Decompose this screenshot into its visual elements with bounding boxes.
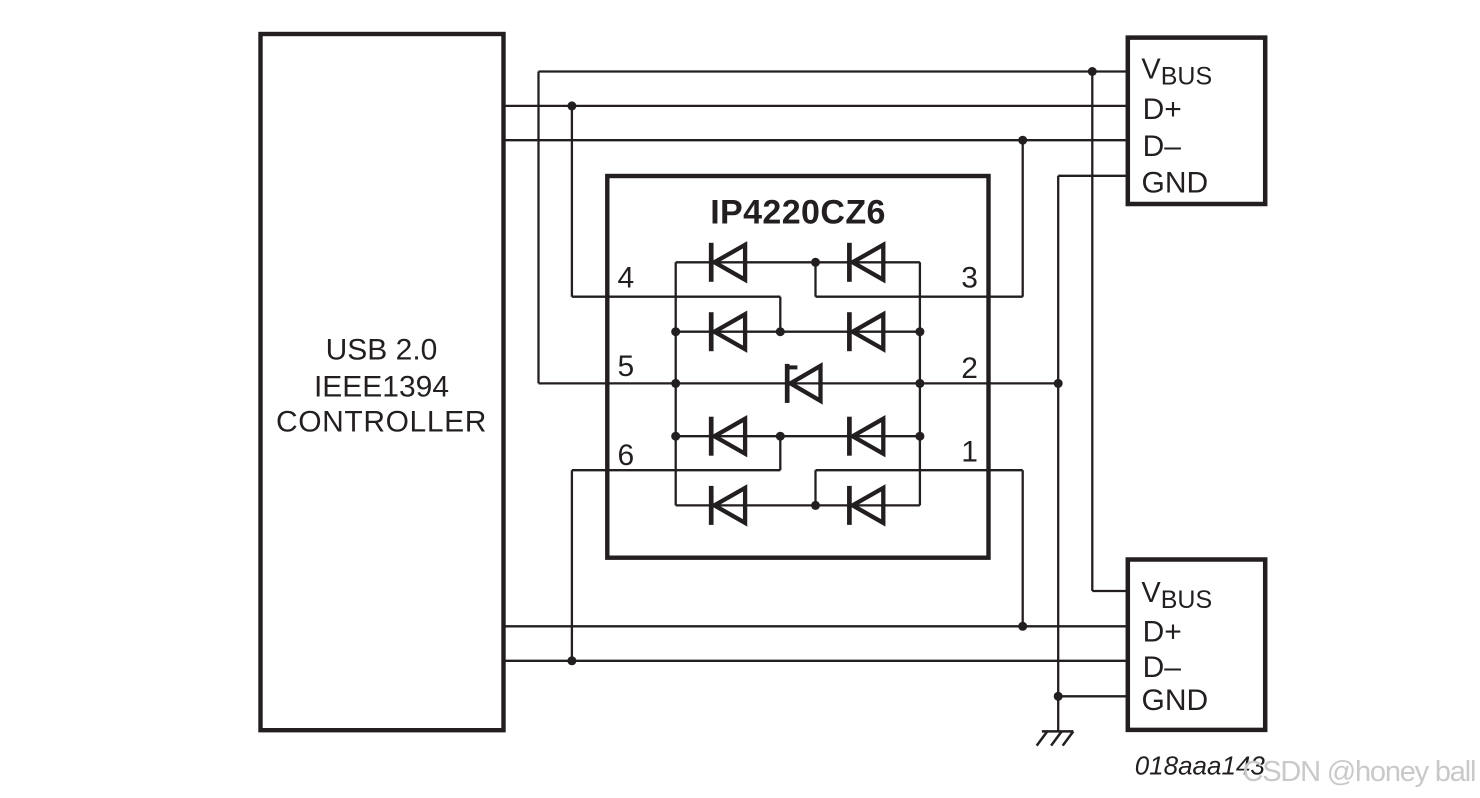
wire row D [676, 435, 920, 437]
svg-text:4: 4 [618, 261, 635, 294]
junction row C left rail [671, 379, 680, 388]
diode D6 row D right [849, 417, 883, 456]
wire pin3 rise to row A [814, 262, 816, 296]
svg-text:D+: D+ [1143, 93, 1182, 126]
connector box top (upstream USB port) [1128, 38, 1265, 204]
svg-text:5: 5 [618, 350, 635, 383]
controller box [261, 34, 504, 730]
wire VBUS bottom horizontal [1092, 590, 1128, 592]
svg-text:D–: D– [1143, 651, 1182, 684]
wire GND vertical [1057, 176, 1059, 732]
junction GND bottom [1054, 692, 1063, 701]
wire GND bottom [1058, 695, 1128, 697]
wire D- bottom [504, 660, 1128, 662]
junction row D right rail [915, 432, 924, 441]
svg-text:GND: GND [1142, 166, 1209, 199]
junction D+ top / pin4 [567, 101, 576, 110]
wire row A [676, 261, 920, 263]
wire left rail [675, 262, 677, 505]
svg-text:6: 6 [618, 439, 635, 472]
junction row C right rail [915, 379, 924, 388]
svg-text:D+: D+ [1143, 616, 1182, 649]
wire VBUS top horizontal [539, 70, 1128, 72]
connector box bottom (downstream USB port) [1128, 560, 1265, 730]
wire GND top [1058, 175, 1128, 177]
diode D3 row B left [711, 312, 745, 351]
wire D- top [504, 139, 1128, 141]
IC box IP4220CZ6 [607, 176, 988, 558]
svg-text:CSDN @honey ball: CSDN @honey ball [1243, 756, 1476, 788]
wire pin6 vertical [571, 470, 573, 661]
junction row B mid [776, 327, 785, 336]
wire pin1 drop to row E [814, 470, 816, 505]
diode D2 row A right [849, 243, 883, 282]
junction D+ bottom / pin1 [1018, 622, 1027, 631]
wire row E [676, 504, 920, 506]
wire pin4 horizontal [572, 296, 780, 298]
junction D- top / pin3 [1018, 136, 1027, 145]
junction pin2 / GND [1054, 379, 1063, 388]
svg-text:USB 2.0: USB 2.0 [326, 334, 438, 367]
diode D1 row A left [711, 243, 745, 282]
svg-text:IP4220CZ6: IP4220CZ6 [710, 193, 886, 231]
wire right rail [919, 262, 921, 505]
wire pin1 outside vertical [1022, 470, 1024, 626]
wire row B [676, 331, 920, 333]
wire VBUS right vertical [1091, 72, 1093, 592]
junction D- bottom / pin6 [567, 656, 576, 665]
junction row D mid [776, 432, 785, 441]
wire pin3 horizontal [816, 296, 1023, 298]
wire pin6 horizontal [572, 469, 780, 471]
junction row A mid [811, 258, 820, 267]
junction row D left rail [671, 432, 680, 441]
wire D+ top [504, 105, 1128, 107]
svg-text:1: 1 [961, 436, 978, 469]
diode D7 row E left [711, 486, 745, 525]
wire row C pin5-pin2 [539, 382, 1059, 384]
svg-text:D–: D– [1143, 130, 1182, 163]
ground symbol [1037, 731, 1074, 745]
wire pin4 drop to row B [779, 297, 781, 332]
svg-text:IEEE1394: IEEE1394 [314, 370, 449, 403]
junction row B left rail [671, 327, 680, 336]
wire pin1 horizontal [816, 469, 1023, 471]
svg-text:3: 3 [961, 261, 978, 294]
wire VBUS left vertical [537, 72, 539, 384]
wire pin4 vertical [571, 106, 573, 297]
diode D8 row E right [849, 486, 883, 525]
diode D5 row D left [711, 417, 745, 456]
zener diode Z1 row C [787, 364, 820, 403]
wire pin3 outside vertical [1022, 140, 1024, 297]
diode D4 row B right [849, 312, 883, 351]
svg-text:GND: GND [1142, 684, 1209, 717]
junction VBUS top [1088, 67, 1097, 76]
junction row B right rail [915, 327, 924, 336]
wire pin6 rise to row D [779, 436, 781, 470]
controller label [276, 334, 487, 439]
svg-text:2: 2 [961, 352, 978, 385]
wire D+ bottom [504, 625, 1128, 627]
svg-text:CONTROLLER: CONTROLLER [276, 406, 487, 439]
junction row E mid [811, 501, 820, 510]
